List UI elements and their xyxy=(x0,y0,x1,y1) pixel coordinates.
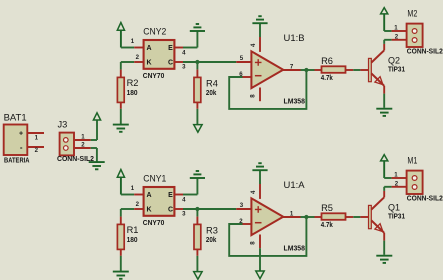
feedback wire U1:A output to -input xyxy=(229,217,306,256)
svg-text:LM358: LM358 xyxy=(284,98,306,105)
wire CNY1 pin 2 to R1 xyxy=(121,209,134,217)
CNY1 pin 1 (A) xyxy=(131,185,144,195)
U1:B pin 5 (+) xyxy=(236,55,252,62)
svg-text:CNY1: CNY1 xyxy=(143,173,166,183)
M1 pin 1 xyxy=(392,172,408,179)
svg-text:2: 2 xyxy=(395,33,399,40)
wire arrow to CNY2 pin 1 xyxy=(121,47,134,49)
connector M1 (CONN-SIL2) xyxy=(407,155,443,202)
transistor Q1 (TIP31) xyxy=(360,191,405,241)
U1:B pin 6 (-) xyxy=(239,71,252,78)
battery BAT1 (BATERIA) xyxy=(4,113,30,165)
terminal (down arrow) under R4 xyxy=(194,125,202,133)
CNY2 pin 1 (A) xyxy=(131,38,144,48)
wire J3 pin 2 to ground xyxy=(91,148,97,162)
svg-text:CONN-SIL2: CONN-SIL2 xyxy=(57,156,94,163)
wire Q2 emitter to ground xyxy=(383,94,385,108)
svg-text:CONN-SIL2: CONN-SIL2 xyxy=(407,196,443,203)
wire Q2 collector to M2 pin 2 xyxy=(384,40,391,44)
junction node R3/CNY1.C xyxy=(195,207,199,211)
ground (rotated) above U1:B pin 4 xyxy=(252,16,267,23)
wire CNY1 pin 4 to ground xyxy=(183,178,197,195)
wire R1 to ground xyxy=(120,256,122,272)
svg-text:8: 8 xyxy=(250,241,257,245)
svg-text:1: 1 xyxy=(131,185,135,192)
wire arrow to M1 pin 1 xyxy=(384,177,391,179)
svg-text:8: 8 xyxy=(250,94,257,98)
wire R2 to ground xyxy=(120,109,122,125)
resistor R1 180 xyxy=(117,217,138,256)
U1:A pin 4 (V-) xyxy=(250,184,260,199)
U1:B pin 8 (V+) xyxy=(250,88,260,102)
op-amp U1:A (LM358) xyxy=(251,180,305,252)
svg-text:U1:B: U1:B xyxy=(284,33,305,43)
wire CNY2 pin 4 to ground xyxy=(183,31,197,48)
J3 pin 1 xyxy=(75,134,91,141)
power terminal (up arrow) to CNY1 pin 1 xyxy=(117,170,124,195)
connector M2 (CONN-SIL2) xyxy=(407,8,443,55)
svg-text:K: K xyxy=(146,207,151,214)
power terminal (up arrow) to M1 pin 1 xyxy=(381,155,388,178)
resistor R3 20k xyxy=(194,209,218,256)
ground under R2 xyxy=(113,125,129,132)
CNY2 pin 2 (K) xyxy=(134,54,143,62)
resistor R4 20k xyxy=(194,62,218,109)
svg-text:R1: R1 xyxy=(127,225,139,235)
U1:A pin 2 (-) xyxy=(239,218,252,225)
svg-text:+: + xyxy=(19,130,23,137)
U1:A pin 3 (+) xyxy=(236,202,252,209)
wire CNY2 pin 2 to R2 xyxy=(121,62,134,70)
transistor Q2 (TIP31) xyxy=(360,44,405,94)
wire CNY1 pin 3 to op-amp +input xyxy=(183,208,236,210)
power terminal (up arrow) to CNY2 pin 1 xyxy=(117,23,124,48)
CNY1 pin 4 (E) xyxy=(175,195,186,204)
svg-text:4.7k: 4.7k xyxy=(321,75,333,82)
svg-text:4: 4 xyxy=(250,190,257,194)
power terminal (up arrow) above J3 xyxy=(93,113,100,120)
svg-text:CNY70: CNY70 xyxy=(143,73,165,80)
svg-text:BATERIA: BATERIA xyxy=(4,157,30,164)
svg-text:4.7k: 4.7k xyxy=(321,222,333,229)
ground (rotated) above CNY1 pin 4 xyxy=(190,171,205,178)
CNY2 pin 3 (C) xyxy=(175,62,186,71)
wire arrow to M2 pin 1 xyxy=(384,30,391,32)
wire J3 pin 1 to power xyxy=(91,120,97,140)
wire Q1 emitter to ground xyxy=(383,241,385,255)
svg-text:4: 4 xyxy=(250,43,257,47)
wire pin 4 to ground xyxy=(259,170,261,184)
wire output to R5 xyxy=(301,216,315,218)
svg-text:E: E xyxy=(168,45,173,52)
U1:A output pin 1 xyxy=(282,210,300,217)
resistor R2 180 xyxy=(117,70,138,109)
ground under Q1 emitter xyxy=(376,256,392,263)
M2 pin 2 xyxy=(392,33,408,40)
svg-text:R4: R4 xyxy=(206,79,218,89)
svg-text:J3: J3 xyxy=(58,119,68,129)
CNY2 pin 4 (E) xyxy=(175,48,186,57)
svg-text:2: 2 xyxy=(395,180,399,187)
wire R5 to Q1 base xyxy=(353,216,360,218)
ground under R1 xyxy=(113,272,129,279)
terminal (down arrow) under U1:A pin 8 xyxy=(256,271,264,279)
svg-text:R6: R6 xyxy=(321,56,333,66)
optocoupler CNY2 (CNY70) xyxy=(143,26,175,80)
optocoupler CNY1 (CNY70) xyxy=(143,173,175,227)
svg-text:LM358: LM358 xyxy=(284,245,306,252)
svg-text:C: C xyxy=(168,60,173,67)
svg-text:A: A xyxy=(146,192,151,199)
U1:B output pin 7 xyxy=(282,63,300,70)
svg-text:U1:A: U1:A xyxy=(284,180,306,190)
wire output to R6 xyxy=(301,69,315,71)
ground (rotated) above CNY2 pin 4 xyxy=(190,24,205,31)
junction node output/R6 xyxy=(304,68,308,72)
svg-text:20k: 20k xyxy=(206,237,217,244)
terminal (down arrow) under R3 xyxy=(194,272,202,280)
J3 pin 2 xyxy=(75,142,91,149)
svg-text:TIP31: TIP31 xyxy=(388,67,405,74)
wire CNY2 pin 3 to op-amp +input xyxy=(183,61,236,63)
svg-text:C: C xyxy=(168,207,173,214)
resistor R5 4.7k xyxy=(315,203,354,229)
svg-text:M1: M1 xyxy=(407,155,417,165)
wire Q1 collector to M1 pin 2 xyxy=(384,187,391,191)
svg-text:R5: R5 xyxy=(321,203,333,213)
svg-text:R3: R3 xyxy=(206,226,218,236)
wire R6 to Q2 base xyxy=(353,69,360,71)
svg-text:E: E xyxy=(168,192,173,199)
connector J3 (CONN-SIL2) xyxy=(57,119,94,163)
svg-text:CNY2: CNY2 xyxy=(143,26,166,36)
BAT1 pin 1 xyxy=(28,133,45,141)
wire U1:A pin 8 to terminal xyxy=(259,248,261,271)
ground (rotated) above U1:A pin 4 xyxy=(252,163,267,170)
BAT1 pin 2 xyxy=(28,147,45,154)
svg-text:Q2: Q2 xyxy=(388,56,400,66)
svg-text:K: K xyxy=(146,60,151,67)
wire pin 4 to ground xyxy=(259,23,261,37)
resistor R6 4.7k xyxy=(315,56,354,82)
power terminal (up arrow) to M2 pin 1 xyxy=(381,8,388,31)
wire arrow to CNY1 pin 1 xyxy=(121,194,134,196)
feedback wire U1:B output to -input xyxy=(229,70,306,109)
svg-text:Q1: Q1 xyxy=(388,203,400,213)
U1:A pin 8 (V+) xyxy=(250,235,260,249)
svg-text:R2: R2 xyxy=(127,78,139,88)
ground under Q2 emitter xyxy=(376,109,392,116)
CNY1 pin 3 (C) xyxy=(175,209,186,218)
M2 pin 1 xyxy=(392,25,408,32)
op-amp U1:B (LM358) xyxy=(251,33,305,105)
wire R4 to terminal xyxy=(196,109,198,125)
svg-text:A: A xyxy=(146,45,151,52)
svg-text:TIP31: TIP31 xyxy=(388,214,405,221)
svg-text:M2: M2 xyxy=(407,8,417,18)
ground under J3 pin 2 wire xyxy=(89,162,105,169)
CNY1 pin 2 (K) xyxy=(134,201,143,209)
svg-text:BAT1: BAT1 xyxy=(4,113,27,123)
svg-text:180: 180 xyxy=(127,237,138,244)
svg-text:CONN-SIL2: CONN-SIL2 xyxy=(407,49,443,56)
wire R3 to terminal xyxy=(196,256,198,272)
junction node output/R5 xyxy=(304,215,308,219)
svg-text:CNY70: CNY70 xyxy=(143,220,165,227)
svg-text:180: 180 xyxy=(127,90,138,97)
svg-text:-: - xyxy=(20,143,23,152)
M1 pin 2 xyxy=(392,180,408,187)
svg-text:20k: 20k xyxy=(206,90,217,97)
svg-text:1: 1 xyxy=(131,38,135,45)
junction node R4/CNY2.C xyxy=(195,60,199,64)
U1:B pin 4 (V-) xyxy=(250,37,260,52)
